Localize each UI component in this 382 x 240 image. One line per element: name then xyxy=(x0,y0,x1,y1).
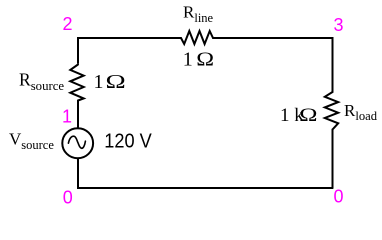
junction tick upper left wire xyxy=(77,52,79,54)
resistor R_source xyxy=(70,65,83,101)
svg-text:3: 3 xyxy=(334,15,344,35)
svg-text:120 V: 120 V xyxy=(104,130,152,152)
svg-text:0: 0 xyxy=(334,187,344,207)
svg-text:1: 1 xyxy=(62,106,72,126)
svg-text:1: 1 xyxy=(94,71,104,93)
svg-text:Ω: Ω xyxy=(196,47,214,70)
svg-text:Ω: Ω xyxy=(299,104,317,126)
sine symbol inside source xyxy=(68,136,85,148)
svg-text:1: 1 xyxy=(183,49,193,71)
svg-text:2: 2 xyxy=(63,14,73,34)
wire R_load to node 0 xyxy=(332,130,334,189)
wire R_source to V_source xyxy=(77,101,79,129)
resistor R_load xyxy=(325,92,338,130)
wire top-left corner: node2 to R_line xyxy=(78,38,181,63)
wire V_source to node 0 and bottom wire xyxy=(78,158,333,188)
svg-text:0: 0 xyxy=(63,187,73,207)
wire R_line to node3 corner down to R_load xyxy=(213,38,333,92)
source V1 circle xyxy=(62,128,93,158)
node 1 junction dot xyxy=(77,113,79,115)
svg-text:Ω: Ω xyxy=(106,71,126,93)
junction tick lower left wire xyxy=(77,170,79,172)
resistor R_line xyxy=(181,31,213,44)
junction tick right wire xyxy=(332,84,334,86)
